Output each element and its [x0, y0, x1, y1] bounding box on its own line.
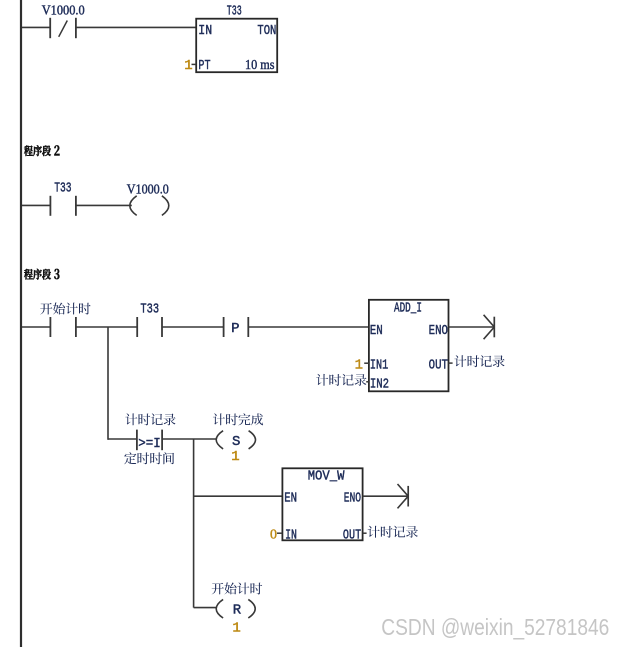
svg-text:T33: T33: [227, 4, 242, 20]
svg-text:PT: PT: [198, 58, 210, 74]
svg-text:ENO: ENO: [344, 491, 361, 507]
svg-text:IN: IN: [198, 23, 212, 39]
svg-text:1: 1: [184, 58, 192, 74]
contact V1000.0 normally-closed: [49, 18, 51, 38]
svg-text:ENO: ENO: [429, 323, 448, 339]
contact P positive edge: [223, 317, 225, 337]
svg-text:1: 1: [231, 449, 239, 465]
svg-text:0: 0: [270, 527, 277, 542]
wire P to ADD_I box: [248, 326, 369, 328]
svg-text:V1000.0: V1000.0: [42, 4, 85, 19]
header 程序段 3: [24, 269, 51, 280]
header 程序段 2: [24, 145, 51, 156]
comparator contact >=I: [136, 430, 138, 451]
svg-text:EN: EN: [370, 323, 383, 339]
wire branch to comparator contact: [108, 438, 137, 440]
wire branch to R coil: [194, 607, 217, 609]
wire with branch junction to contact T33: [76, 326, 137, 328]
svg-text:CSDN @weixin_52781846: CSDN @weixin_52781846: [381, 614, 609, 640]
coil V1000.0: [130, 196, 137, 216]
svg-text:IN1: IN1: [370, 358, 388, 374]
tick IN MOV_W: [277, 532, 282, 534]
svg-text:TON: TON: [257, 23, 276, 39]
label 计时记录 (comparator top operand): [125, 413, 175, 425]
coil R reset: [216, 599, 223, 618]
wire contact to coil: [76, 204, 132, 206]
jump arrow after MOV_W ENO: [363, 495, 409, 497]
svg-text:10 ms: 10 ms: [245, 58, 275, 73]
tick OUT MOV_W: [363, 532, 367, 534]
label 计时记录 (IN2 operand): [316, 374, 366, 386]
tick PT: [192, 63, 197, 65]
label 计时完成 (S coil operand): [213, 413, 263, 425]
svg-text:EN: EN: [284, 491, 297, 507]
tick IN2: [366, 381, 369, 383]
jump arrow after ADD_I ENO: [449, 326, 495, 328]
branch vertical wire to comparator: [107, 327, 109, 440]
MOV_W box: [282, 468, 362, 540]
label 开始计时 (contact operand): [40, 303, 90, 315]
svg-text:S: S: [232, 434, 240, 450]
contact T33 normally-open network 3: [136, 317, 138, 337]
svg-text:OUT: OUT: [429, 358, 448, 374]
branch vertical wire to MOV_W and R coil: [193, 439, 195, 608]
label 计时记录 (OUT operand): [454, 355, 504, 367]
tick OUT: [449, 362, 453, 364]
label 开始计时 (R coil operand): [212, 582, 263, 594]
wire branch to MOV_W: [194, 495, 283, 497]
contact T33 normally-open: [49, 196, 51, 216]
wire comparator to S coil with junction: [162, 438, 216, 440]
wire rail to contact T33: [22, 204, 50, 206]
left power rail: [20, 0, 22, 647]
tick IN1: [364, 362, 369, 364]
label 计时记录 (MOV_W OUT operand): [368, 526, 418, 538]
timer T33 box TON: [196, 19, 277, 72]
svg-text:IN: IN: [285, 527, 297, 543]
coil S set: [216, 431, 223, 449]
contact 开始计时 normally-open: [49, 317, 51, 337]
wire rail to contact: [22, 26, 50, 28]
svg-text:1: 1: [232, 621, 240, 637]
svg-text:T33: T33: [54, 180, 71, 196]
svg-text:ADD_I: ADD_I: [394, 300, 422, 316]
svg-text:>=I: >=I: [138, 436, 161, 452]
label 定时时间 (comparator bottom operand): [124, 452, 174, 464]
svg-text:T33: T33: [140, 302, 159, 318]
svg-text:OUT: OUT: [343, 527, 361, 543]
ADD_I box: [369, 300, 449, 392]
wire rail to contact 开始计时: [22, 326, 50, 328]
svg-text:IN2: IN2: [370, 376, 389, 392]
svg-text:P: P: [231, 321, 239, 337]
svg-text:1: 1: [355, 358, 363, 374]
svg-text:R: R: [233, 603, 242, 619]
wire T33 to P contact: [162, 326, 224, 328]
svg-text:MOV_W: MOV_W: [308, 468, 345, 484]
wire contact to timer box: [76, 26, 196, 28]
